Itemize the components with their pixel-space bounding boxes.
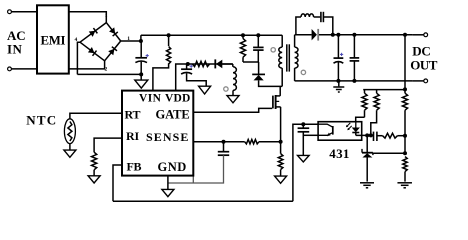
node Rb comp junction [369, 133, 373, 137]
wire secondary to diode [295, 34, 312, 36]
bridge diode D4 (B-R) [105, 41, 121, 61]
transformer primary lead top [281, 35, 283, 47]
bridge diode D1 (L-T) [80, 23, 106, 43]
opto coupling arrows [346, 123, 352, 130]
startup resistor R1 [167, 47, 171, 65]
node LED cathode 431 junction [365, 133, 369, 137]
wire GND pin [167, 176, 169, 190]
NTC ground lead [69, 144, 71, 150]
wire divider header [363, 89, 405, 91]
MOSFET Q1 body stub [276, 100, 280, 102]
node VDD cap junction [186, 62, 190, 66]
MOSFET Q1 drain jog [276, 95, 281, 97]
node clamp cap tap [256, 33, 260, 37]
wire 431 anode [366, 158, 368, 182]
wire bridge positive to bus [121, 40, 141, 42]
controller IC U1 [122, 91, 193, 176]
wire VDD pin riser [176, 64, 233, 91]
svg-text:FB: FB [127, 160, 142, 174]
node sense filter cap [222, 140, 226, 144]
label NTC [26, 113, 57, 128]
secondary earth stem [338, 81, 340, 87]
EMI filter block [37, 5, 69, 73]
wire clamp bottom [243, 61, 259, 63]
wire 431 ref [373, 152, 405, 154]
transformer primary polarity dot [271, 48, 275, 52]
divider resistor Ra [362, 90, 367, 118]
svg-text:RI: RI [126, 129, 139, 143]
clamp diode D6 [252, 74, 265, 80]
transformer core [287, 44, 290, 71]
wire source to sense [280, 107, 282, 142]
node output cap2 bottom [352, 79, 356, 83]
ground 431 earth [360, 183, 374, 188]
wire bus riser [140, 35, 142, 41]
ground divider earth [397, 183, 412, 188]
wire Ra to LED anode [356, 117, 365, 121]
transformer primary winding [279, 47, 282, 68]
wire primary return bus [77, 73, 141, 75]
wire to DC- terminal [412, 80, 423, 82]
wire FB bottom rail [113, 200, 293, 202]
opto LED [352, 122, 360, 133]
comp wire to Rc [398, 135, 406, 137]
pin label RT [125, 107, 141, 121]
clamp capacitor C3 [253, 35, 264, 62]
svg-text:NTC: NTC [26, 113, 57, 128]
label 431 [329, 146, 349, 161]
node Rc comp junction [403, 134, 407, 138]
transformer primary lead bottom [281, 68, 283, 86]
divider resistor Rb [374, 90, 379, 111]
TL431 U3 [362, 149, 373, 158]
MOSFET Q1 gate bar [272, 96, 274, 109]
transformer secondary winding [295, 47, 298, 68]
snubber resistor R7 [301, 14, 314, 17]
sense resistor R4 [245, 140, 259, 144]
wire C4 return [168, 155, 224, 183]
ground NTC [64, 150, 76, 157]
node startup resistor tap [167, 33, 171, 37]
snubber branch [296, 17, 301, 35]
opto transistor base bar [332, 126, 334, 135]
svg-text:DC: DC [412, 43, 430, 58]
svg-text:EMI: EMI [41, 33, 66, 47]
output diode D7 [312, 29, 319, 41]
node opto filter cap [301, 122, 305, 126]
wire opto emitter [303, 134, 318, 136]
clamp diode D6 lead [258, 62, 260, 74]
ground sense resistor [275, 176, 287, 183]
wire FB pin [113, 165, 122, 201]
svg-text:IN: IN [7, 42, 22, 57]
comp resistor R8 [383, 133, 398, 138]
terminal DC+ [424, 33, 428, 37]
ground VDD capacitor [199, 86, 211, 94]
opto transistor emitter [318, 133, 333, 137]
aux winding ground lead [232, 90, 234, 95]
node source sense junction [279, 140, 283, 144]
divider resistor Rc [402, 90, 407, 154]
wire AC bottom to EMI [11, 68, 37, 70]
ground aux winding [227, 96, 239, 103]
output capacitor C7 [334, 35, 344, 81]
wire RT pin to NTC [70, 113, 122, 119]
wire R4 to source node [259, 141, 281, 143]
node Rc ref junction [403, 151, 407, 155]
wire Rb to comp node [371, 110, 377, 135]
wire AC top to EMI [11, 11, 37, 13]
node divider top tap [403, 33, 407, 37]
wire D6 anode to drain node [259, 80, 283, 86]
aux winding L1 [233, 67, 236, 91]
optocoupler U2 box [318, 122, 362, 141]
svg-text:VDD: VDD [165, 92, 191, 104]
opto filter cap C5 [298, 124, 310, 132]
wire output bottom rail [295, 80, 413, 82]
ground bulk capacitor [135, 80, 148, 88]
node clamp resistor tap [241, 33, 245, 37]
node bulk cap ground [139, 72, 143, 76]
opto LED cathode lead [355, 133, 357, 136]
ground RI resistor [88, 176, 100, 183]
wire FB riser to opto [293, 124, 318, 201]
svg-text:GATE: GATE [156, 107, 190, 121]
wire R1 to VIN pin [153, 63, 169, 90]
node output cap2 top [352, 33, 356, 37]
node bulk cap junction [139, 39, 143, 43]
lower divider resistor Rd [403, 157, 407, 182]
pin label VDD [165, 92, 191, 104]
wire to DC+ terminal [412, 34, 423, 36]
transformer secondary lead top [294, 35, 296, 47]
svg-text:RT: RT [125, 107, 141, 121]
VDD capacitor C2 [181, 65, 193, 74]
bulk capacitor C1 lead [140, 41, 142, 57]
RI resistor R6 [92, 152, 97, 175]
startup resistor R1 lead [168, 35, 170, 46]
opto transistor collector [318, 124, 333, 127]
wire 431 cathode [366, 135, 368, 152]
bridge pin number marks [75, 13, 131, 72]
wire GATE pin to Q1 [193, 108, 272, 112]
pin label RI [126, 129, 139, 143]
snubber wire [314, 16, 321, 18]
pin label SENSE [146, 130, 190, 144]
wire RI pin [94, 138, 122, 152]
sense filter cap C4 [218, 142, 229, 156]
clamp resistor R3 [240, 35, 245, 62]
ground opto cap [298, 155, 310, 162]
wire drain [279, 86, 281, 96]
aux winding polarity dot [224, 87, 228, 91]
comp capacitor C9 [374, 132, 377, 141]
svg-text:431: 431 [329, 146, 349, 161]
MOSFET Q1 channel bar [275, 95, 277, 109]
ground secondary earth [333, 87, 344, 92]
node output cap1 bottom [336, 79, 340, 83]
VDD diode D5 [215, 59, 233, 68]
wire C5 to ground [302, 132, 304, 155]
node output cap1 top [336, 33, 340, 37]
wire C2 to ground [187, 73, 207, 86]
sense ground resistor R5 [278, 142, 283, 176]
terminal AC input bottom [8, 67, 12, 71]
snubber capacitor C6 [321, 12, 324, 22]
NTC thermistor [64, 119, 75, 144]
wire SENSE pin [193, 141, 244, 143]
bridge diode D3 (L-B) [80, 42, 105, 61]
svg-text:OUT: OUT [410, 57, 438, 72]
wire bridge negative to primary return [77, 42, 80, 74]
wire divider riser [404, 35, 406, 90]
pin label VIN [139, 92, 162, 104]
label DC OUT [410, 43, 438, 72]
svg-text:GND: GND [158, 160, 187, 174]
output capacitor C8 [350, 35, 360, 81]
label AC IN [7, 28, 25, 56]
svg-text:VIN: VIN [139, 92, 162, 104]
svg-text:2: 2 [105, 67, 108, 73]
snubber return [323, 17, 332, 35]
VDD capacitor C2 lead [186, 64, 188, 69]
node divider header junction [403, 87, 407, 91]
wire HV bus rail [141, 34, 282, 36]
wire output top rail [319, 34, 412, 36]
pin label FB [127, 160, 142, 174]
ground GND pin [162, 189, 174, 196]
wire EMI bottom out to bridge AC2 [69, 61, 105, 69]
wire LED cathode to comp cap [356, 134, 374, 136]
aux winding lead [232, 64, 234, 67]
wire EMI top out to bridge AC1 [69, 12, 107, 23]
transformer secondary polarity dot [301, 70, 305, 74]
terminal DC- [424, 79, 428, 83]
comp wire [377, 135, 383, 137]
pin label GND [158, 160, 187, 174]
bulk capacitor C1 [135, 54, 148, 63]
MOSFET Q1 source jog [276, 106, 281, 108]
pin label GATE [156, 107, 190, 121]
svg-text:SENSE: SENSE [146, 130, 190, 144]
transformer secondary lead bottom [294, 68, 296, 81]
svg-text:1: 1 [105, 13, 108, 19]
node snubber return [331, 33, 335, 37]
VDD resistor R2 [192, 61, 209, 66]
bulk capacitor C1 lower lead [140, 62, 142, 80]
terminal AC input top [8, 10, 12, 14]
bridge diode D2 (T-R) [106, 23, 120, 41]
